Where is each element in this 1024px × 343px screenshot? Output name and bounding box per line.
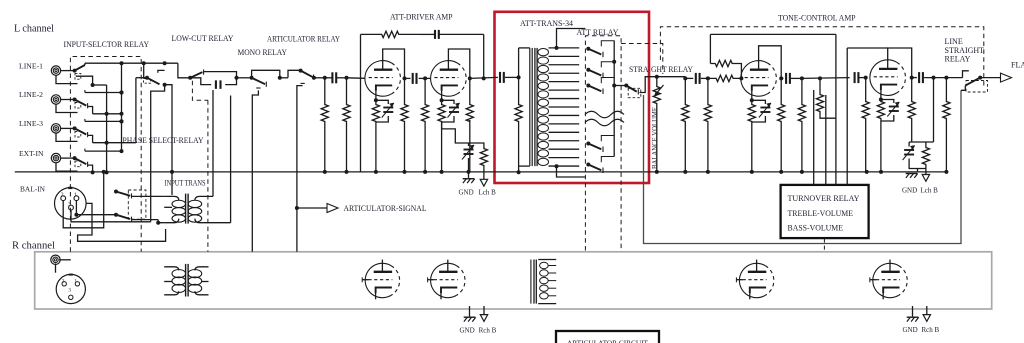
svg-text:LOW-CUT RELAY: LOW-CUT RELAY [172,34,234,43]
dashed link LOW-CUT relay [192,81,208,101]
label FLAT [1011,61,1024,70]
svg-text:Rch B: Rch B [922,326,940,334]
resistor driver grid [343,78,350,172]
capacitor coupling to driver [325,72,347,83]
articulator relay contact down [297,83,305,251]
svg-text:BAL-IN: BAL-IN [20,185,46,194]
V1 cathode network [372,91,394,172]
articulator relay top path [288,70,301,78]
svg-text:BALANCE VOLUME: BALANCE VOLUME [650,107,659,169]
svg-text:LINE: LINE [945,37,963,46]
decoupling RC left [442,122,488,172]
capacitor into att-trans [500,72,521,83]
svg-text:RELAY: RELAY [945,55,971,64]
wire rail into low-cut [178,63,190,78]
capacitor low-cut [190,78,236,89]
label L channel [14,23,54,35]
ground GND left L [459,170,475,197]
svg-text:2: 2 [62,278,65,284]
att relay switches [586,41,616,174]
tone series resistor pair [708,34,744,81]
node after low-cut [235,76,252,80]
V3 plate loop [759,46,782,79]
V3 NFB resistor [816,76,836,118]
feedback right wire [482,34,486,80]
wire V2 to att-trans [470,77,498,78]
mono relay contact to R channel [252,88,260,252]
svg-text:GND: GND [902,186,917,194]
tube V4 tone [870,60,906,96]
R strip ground GND Rch B left [460,306,497,335]
svg-text:1: 1 [74,193,77,199]
R channel strip frame (gray) [35,252,992,309]
XLR wiring [63,172,165,241]
V1 plate loop [383,49,407,80]
output wire FLAT [980,73,1011,82]
ground bus wire [15,170,949,174]
svg-text:2: 2 [61,193,64,199]
dashed stub TURNOVER RELAY to R channel [823,239,825,252]
articulator signal arrow [295,204,338,213]
svg-text:TURNOVER RELAY: TURNOVER RELAY [788,194,860,203]
label MONO RELAY [238,48,288,57]
mono relay switch [252,78,267,87]
svg-text:Rch B: Rch B [479,327,497,335]
selector output switch [136,70,174,221]
label INPUT-SELCTOR RELAY [64,40,150,49]
svg-text:STRAIGHT RELAY: STRAIGHT RELAY [629,65,693,74]
svg-text:LINE-1: LINE-1 [19,61,43,70]
label LINE-2 [19,90,43,99]
V4 grid resistor [862,76,869,172]
straight relay to tone amp [640,77,657,93]
tube V1 driver [365,61,401,97]
XLR connector BAL-IN [55,188,87,220]
label ATT-DRIVER AMP [390,13,453,22]
tube V2 driver [431,61,467,97]
R strip tube V1 [362,260,399,300]
svg-text:ATT-DRIVER AMP: ATT-DRIVER AMP [390,13,453,22]
wire to tube V2 [425,77,430,79]
dashed box TONE-CONTROL AMP [660,27,983,88]
node before articulator cap [312,76,327,80]
tone shunt resistor 2 [704,78,711,171]
node driver input [345,76,349,80]
label LOW-CUT RELAY [172,34,234,43]
svg-text:ARTICULATOR-SIGNAL: ARTICULATOR-SIGNAL [344,204,427,213]
V2 cathode network [438,91,460,172]
V2 output resistor [466,78,473,171]
low-cut top path [204,72,237,78]
articulator relay switch [299,69,314,80]
label TONE-CONTROL AMP [778,14,856,23]
svg-text:GND: GND [459,189,474,197]
svg-text:INPUT-SELCTOR RELAY: INPUT-SELCTOR RELAY [64,40,150,49]
R strip tube V2 [428,260,465,300]
output load resistor [943,78,950,172]
R strip ground GND Rch B right [903,306,940,334]
ground GND right L [902,174,918,195]
resistor grid-leak before cap [321,78,328,172]
V4 cathode network [877,90,899,172]
svg-text:GND: GND [460,327,475,335]
label LINE STRAIGHT RELAY [945,37,985,64]
phase select relay switch A [114,190,164,199]
label BAL-IN [20,185,46,194]
dashed box INPUT-SELCTOR RELAY [70,57,141,252]
input connector LINE-3 with selector relay switch [51,119,123,143]
V3 output capacitor [781,73,804,84]
input transformer L [156,90,230,225]
svg-text:ATT RELAY: ATT RELAY [577,28,619,37]
label BALANCE VOLUME [650,107,659,169]
svg-text:BASS-VOLUME: BASS-VOLUME [788,223,844,232]
svg-text:LINE-3: LINE-3 [19,119,43,128]
V4 plate resistor [908,78,915,142]
feedback loop left wire [360,34,362,172]
R strip input transformer [164,264,208,297]
R strip tube V4 [870,260,907,300]
label PHASE SELECT-RELAY [123,136,204,145]
dashed line PHASE SELECT relay to R channel [207,100,209,252]
mono relay bypass loop [250,70,280,80]
tone network verticals to turnover box [802,34,850,185]
phase relay dashed box [128,190,146,219]
feedback resistor [361,31,421,37]
line straight relay switch [946,71,987,92]
V2 plate loop [448,49,471,80]
input connector LINE-1 with selector relay switch [51,63,94,87]
R strip RCA connector [51,255,71,273]
V4 output capacitor [912,72,949,83]
label R channel [12,240,55,252]
wire to tube V1 [347,77,365,80]
label ARTICULATOR RELAY [267,35,340,44]
svg-text:L channel: L channel [14,23,54,35]
svg-text:3: 3 [68,202,71,208]
wire to output RC [932,76,936,142]
label INPUT TRANS [165,179,206,188]
label ATT RELAY [577,28,619,37]
input connector LINE-2 with selector relay switch [51,90,123,114]
att relay output wire [614,84,628,88]
label EXT-IN [19,149,44,158]
svg-text:MONO RELAY: MONO RELAY [238,48,288,57]
svg-text:TREBLE-VOLUME: TREBLE-VOLUME [788,209,854,218]
svg-text:INPUT TRANS: INPUT TRANS [165,179,206,188]
att-trans-34 transformer [519,48,549,166]
svg-text:PHASE SELECT-RELAY: PHASE SELECT-RELAY [123,136,204,145]
V3 plate resistor [778,76,785,171]
svg-text:ATT-TRANS-34: ATT-TRANS-34 [520,19,573,28]
feedback capacitor [420,30,484,39]
V3 feedback top rail [710,33,836,35]
B supply Lch B right [921,169,939,195]
phase select relay switch B [114,213,164,223]
label ATT-TRANS-34 [520,19,573,28]
bypass wire to line straight relay [644,90,962,243]
R strip att transformer [531,260,556,304]
box ARTICULATOR CIRCUIT [556,331,659,343]
tone network resistor [798,78,805,171]
tone input shunt resistor [682,78,689,171]
V4 plate loop [847,48,914,80]
tube V3 tone [741,61,777,97]
low-cut relay switch [188,70,203,80]
B supply Lch B left [479,172,497,197]
straight relay switch [626,86,641,98]
svg-text:FLAT: FLAT [1011,61,1024,70]
svg-text:EXT-IN: EXT-IN [19,149,44,158]
wire balance to tone input [657,76,688,80]
V2 grid resistor [422,78,429,171]
svg-text:TONE-CONTROL AMP: TONE-CONTROL AMP [778,14,856,23]
node after mono [278,76,288,80]
svg-text:GND: GND [903,326,918,334]
label ARTICULATOR-SIGNAL [344,204,427,213]
decoupling RC right [903,142,934,173]
input connector EXT-IN with selector relay switch [51,149,123,173]
svg-text:1: 1 [74,278,77,284]
tone input capacitor [685,73,710,84]
svg-text:3: 3 [68,288,71,294]
dashed link ATT RELAY to STRAIGHT RELAY [621,44,663,75]
svg-text:ARTICULATOR RELAY: ARTICULATOR RELAY [267,35,340,44]
box TURNOVER RELAY / TREBLE-VOLUME / BASS-VOLUME [781,185,869,238]
svg-text:Lch B: Lch B [921,186,939,194]
svg-text:R channel: R channel [12,240,55,252]
label LINE-3 [19,119,43,128]
label LINE-1 [19,61,43,70]
att-trans secondary taps [549,29,586,178]
svg-text:ARTICULATOR CIRCUIT: ARTICULATOR CIRCUIT [567,339,648,343]
V1 plate resistor [401,78,408,171]
V4 input capacitor [855,72,865,83]
svg-text:Lch B: Lch B [479,189,497,197]
balance volume potentiometer [653,75,663,172]
V3 cathode network [748,91,771,172]
input selector wiring mesh [85,61,178,174]
highlight box ATT-TRANS-34 (red) [495,12,650,183]
dashed box ATT RELAY [585,36,621,251]
svg-text:LINE-2: LINE-2 [19,90,43,99]
interstage capacitor [405,73,428,84]
label STRAIGHT RELAY [629,65,693,74]
R strip tube V3 [736,260,773,300]
att relay continuation squiggles [585,111,624,126]
R strip XLR connector [56,274,85,303]
att-trans primary shunt resistor [515,77,530,174]
